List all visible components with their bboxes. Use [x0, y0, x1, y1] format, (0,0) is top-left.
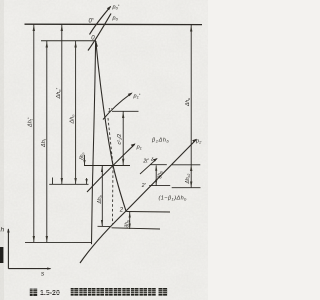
arrows V7 [155, 166, 157, 171]
paper background [0, 0, 208, 300]
actual blade process line 1 - 2 [113, 166, 126, 212]
actual nozzle process line 0 - 1 [96, 41, 113, 166]
level line H2 through 0 (p0 level) [41, 40, 96, 42]
level line H5 (1t level) [49, 183, 88, 185]
arrows V4 [74, 42, 76, 48]
level line H9 right (2t'' level) [150, 164, 167, 166]
tick at left end of H5 [52, 178, 54, 185]
dim line V12 c1^2/2 [122, 112, 124, 166]
arrows V11 [101, 166, 103, 172]
dimension arrowheads [33, 25, 193, 242]
isobar p0* arrowhead [107, 6, 111, 10]
top level line H1 through 0* (p0* level) [25, 23, 203, 25]
outside arrow stub below H5 for dh_n [86, 178, 88, 184]
level line H7+H14 (2t' level) [98, 225, 111, 227]
caption CJK glyph blocks [30, 288, 167, 296]
outside arrow stub above H4 for dh_n [84, 155, 86, 165]
isobar p2 long line through 2t and 2 [80, 140, 196, 264]
arrows V8 [129, 212, 131, 217]
level line H10 (2' level) [149, 185, 170, 187]
level line H3 (1* level) [112, 110, 139, 112]
h axis [7, 229, 9, 269]
dim line V8 delta h_b [129, 212, 131, 229]
dashed isentrope 1 - 2t' [108, 118, 113, 224]
level line H11 right (1 level) [172, 164, 200, 166]
ideal (isentropic) expansion line 0 - 2t [92, 41, 96, 244]
isobar p1 arrowhead [131, 143, 136, 147]
isobar p0 curve [88, 14, 111, 51]
caption char tu [30, 289, 37, 296]
noise overlays [0, 0, 208, 300]
isobar p1* arrowhead [128, 93, 133, 97]
dim line V4 dh_n [75, 41, 77, 184]
caption chars chong dong ji de shi ji re li guo cheng xian [71, 288, 79, 296]
isobar p0* curve [90, 7, 111, 35]
level line H6 through point 2 [126, 211, 170, 214]
thin dimension-line group [25, 25, 201, 243]
s axis [8, 268, 50, 270]
level line H13 right (2' level) [172, 187, 201, 189]
arrows V12 [122, 112, 124, 118]
dim line V6 right [190, 25, 192, 187]
dim line V1 dh_t* [33, 25, 35, 243]
arrows V6 top and across H11 and bottom [190, 26, 192, 32]
dim line V2 dh_t [46, 41, 48, 242]
h axis arrowhead [7, 228, 10, 232]
arrow stub v10 down to H5 [86, 179, 88, 184]
dim line V11 Dh_b [101, 166, 103, 226]
dim line V7 [155, 165, 157, 185]
level line H8 bottom datum (2t level) [25, 241, 92, 243]
arrow stub v9 down to H4 [83, 160, 85, 165]
isobar p1 through point 1 [87, 144, 135, 192]
its arrowhead [153, 158, 158, 162]
s axis arrowhead [47, 267, 51, 269]
scan artifact blob left edge [0, 247, 3, 263]
small up arrow at point 0 [95, 42, 98, 47]
level line right part (2t' level) [112, 228, 161, 229]
white hatch over caption blocks to suggest strokes [30, 288, 167, 296]
arrows V1 [33, 25, 35, 31]
arrows V3 [61, 25, 63, 31]
dim line V3 dh_n* [61, 25, 63, 185]
isobar p1* short curve through 1* [103, 93, 132, 119]
short diagonal arrow line near 2t' right cluster [140, 159, 157, 174]
isobar p2 arrowhead [192, 139, 197, 143]
arrows V2 [46, 42, 48, 48]
level line H4 through point 1 [84, 165, 130, 167]
